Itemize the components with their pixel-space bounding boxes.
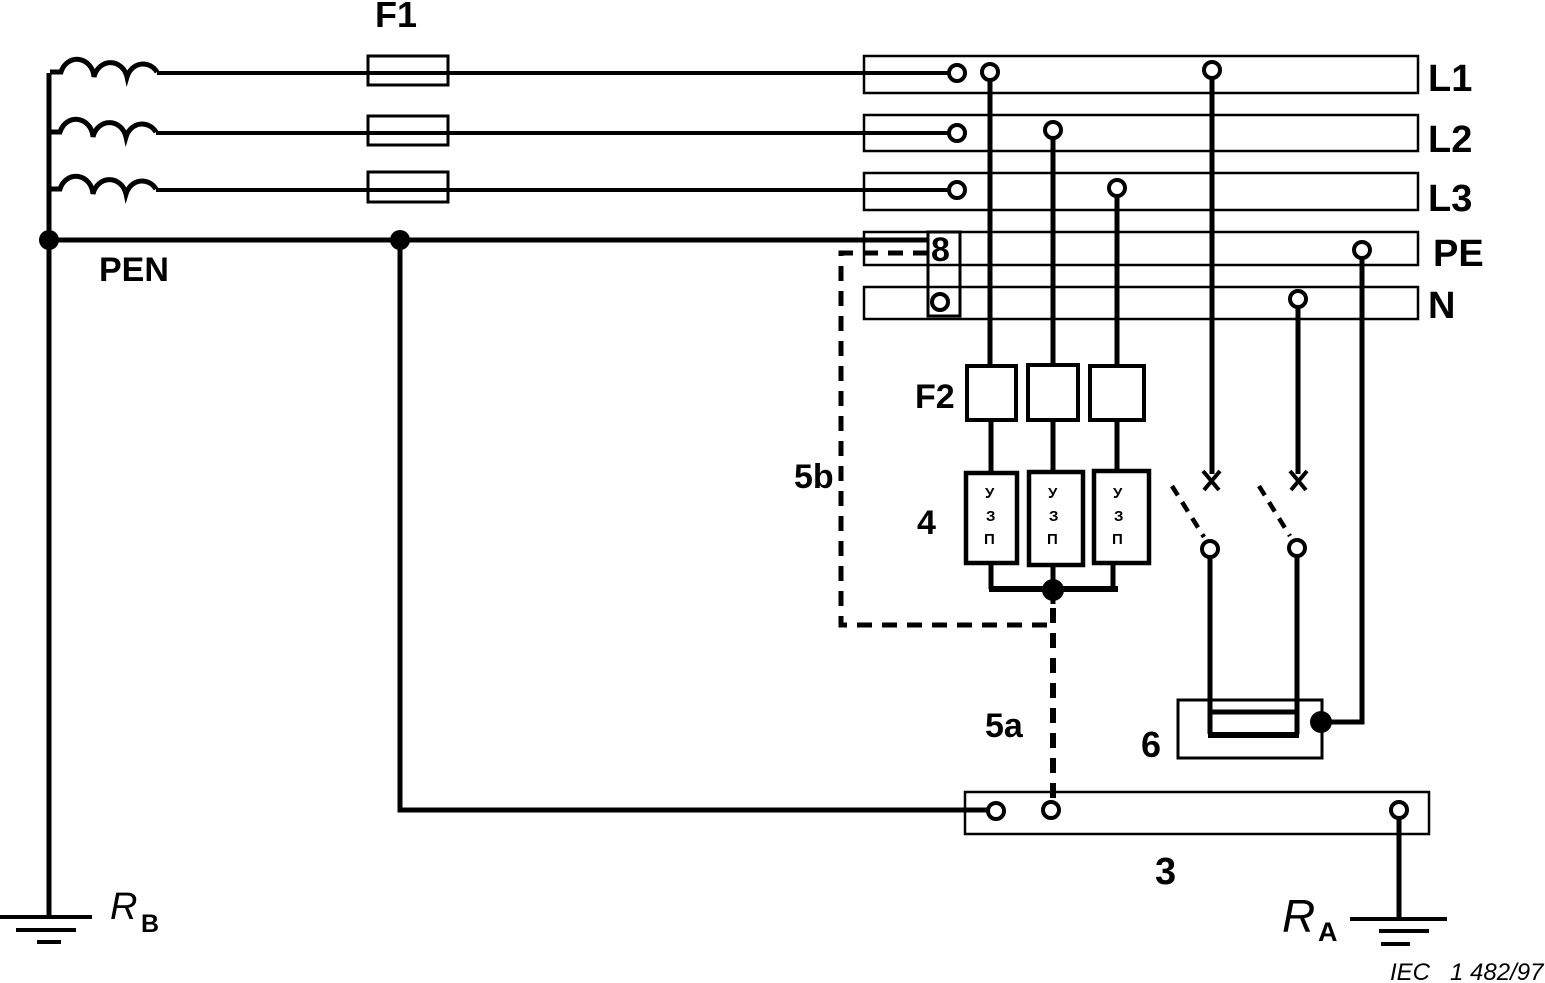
wire switch 2 to box 6 — [1295, 556, 1300, 734]
junction PEN at riser — [39, 230, 59, 250]
svg-text:A: A — [1318, 917, 1338, 947]
svg-text:L2: L2 — [1428, 119, 1472, 161]
fuse F1-3 — [368, 172, 448, 202]
wire L2 from winding through F1 to busbar — [156, 131, 949, 135]
svg-text:5a: 5a — [985, 707, 1024, 745]
wire SPD2 bottom — [1051, 565, 1056, 592]
switch 1 moving contact (dashed) — [1172, 486, 1204, 537]
svg-text:П: П — [1112, 531, 1123, 548]
fuse F2-3 — [1090, 366, 1144, 420]
winding L2 (source coil) — [50, 119, 156, 137]
svg-text:3: 3 — [1155, 851, 1176, 893]
terminal 3 left (circle) — [988, 803, 1004, 819]
terminal 8-N (circle) — [932, 294, 948, 310]
winding L1 (source coil) — [50, 59, 157, 77]
terminal L1 tap to switch (circle) — [1204, 62, 1220, 78]
switch 2 hinge (circle) — [1289, 540, 1305, 556]
switch 2 moving contact (dashed) — [1259, 486, 1290, 536]
ground RA — [1350, 919, 1447, 944]
SPD 3 (surge protective device) — [1094, 471, 1149, 563]
wire L3 from winding through F1 to busbar — [156, 188, 949, 192]
svg-text:З: З — [986, 508, 995, 525]
svg-text:F2: F2 — [915, 378, 955, 416]
svg-text:6: 6 — [1141, 724, 1161, 765]
svg-text:П: П — [984, 531, 995, 548]
wire tap L3 down to F2-3 — [1115, 196, 1120, 366]
terminal N tap (circle) — [1290, 291, 1306, 307]
wire PEN drop to earth bar 3 — [400, 240, 988, 810]
busbar N — [864, 287, 1418, 319]
fuse F2-2 — [1028, 365, 1078, 420]
svg-text:4: 4 — [917, 504, 936, 542]
fuse F1-1 — [368, 56, 448, 85]
svg-text:IEC 1 482/97: IEC 1 482/97 — [1390, 959, 1545, 983]
terminal block 8 (PEN split) — [928, 232, 960, 316]
wire: left vertical riser from source to earth RB — [47, 73, 52, 918]
terminal L2 in (circle) — [949, 125, 965, 141]
wire F2-2 to SPD 2 — [1051, 420, 1056, 473]
junction PE at box 6 — [1310, 711, 1332, 733]
switch 1 hinge (circle) — [1202, 541, 1218, 557]
busbar L3 — [864, 173, 1418, 210]
SPD 2 (surge protective device) — [1029, 472, 1083, 565]
svg-text:PE: PE — [1433, 233, 1484, 275]
wire earth bar to RA earth — [1397, 818, 1402, 919]
equipment box 6 — [1178, 700, 1322, 758]
svg-text:У: У — [1048, 485, 1058, 502]
winding L3 (source coil) — [50, 176, 156, 194]
svg-text:П: П — [1047, 531, 1058, 548]
wire F2-3 to SPD 3 — [1115, 420, 1120, 473]
wire 5b dashed earthing link — [841, 253, 1050, 625]
wire tap L1 down to switch 1 — [1210, 78, 1215, 474]
fuse F1-2 — [368, 116, 448, 145]
wire SPD common join bar — [989, 586, 1118, 592]
wire L1 from winding through F1 to busbar — [157, 71, 949, 75]
svg-text:У: У — [1113, 485, 1123, 502]
switch 1 fixed contact X — [1203, 471, 1220, 490]
busbar PE — [864, 232, 1418, 265]
svg-text:R: R — [1282, 890, 1315, 942]
svg-text:8: 8 — [931, 231, 950, 269]
terminal L3 in (circle) — [949, 182, 965, 198]
terminal L2 tap (circle) — [1045, 122, 1061, 138]
busbar L1 — [864, 56, 1418, 93]
earthing bar 3 — [965, 792, 1429, 834]
bar inside box 6 upper — [1212, 710, 1295, 715]
terminal 3 mid (circle) — [1043, 802, 1059, 818]
wire switch 1 to box 6 — [1208, 557, 1213, 734]
terminal L3 tap (circle) — [1109, 180, 1125, 196]
svg-text:PEN: PEN — [99, 251, 169, 289]
wire SPD1 bottom — [989, 563, 994, 589]
wire tap L1 down to F2-1 — [988, 80, 993, 366]
svg-text:F1: F1 — [375, 0, 417, 35]
wire PEN horizontal — [49, 238, 928, 243]
wire PE down to box 6 — [1324, 258, 1362, 722]
svg-text:5b: 5b — [794, 458, 834, 496]
wire F2-1 to SPD 1 — [989, 420, 994, 473]
terminal L1 in (circle) — [949, 65, 965, 81]
svg-text:L1: L1 — [1428, 58, 1472, 100]
terminal PE tap (circle) — [1354, 242, 1370, 258]
wire SPD3 bottom — [1111, 563, 1116, 589]
svg-text:N: N — [1428, 285, 1455, 327]
junction PEN at drop — [390, 230, 410, 250]
SPD 1 (surge protective device) — [966, 473, 1017, 563]
switch 2 fixed contact X — [1290, 471, 1307, 490]
terminal L1 tap to F2 (circle) — [982, 64, 998, 80]
svg-text:У: У — [985, 485, 995, 502]
wire tap N down to switch 2 — [1296, 307, 1301, 474]
ground RB — [0, 917, 92, 942]
wire stub below junction — [1051, 590, 1056, 604]
fuse F2-1 — [967, 366, 1016, 420]
svg-text:R: R — [110, 886, 137, 928]
wire tap L2 down to F2-2 — [1051, 138, 1056, 366]
wire 5a dashed down to earth bar — [1050, 608, 1056, 800]
terminal 3 right (circle) — [1391, 802, 1407, 818]
junction SPD common — [1042, 579, 1064, 601]
svg-text:B: B — [141, 910, 159, 938]
svg-text:L3: L3 — [1428, 178, 1472, 220]
svg-text:З: З — [1114, 508, 1123, 525]
bar inside box 6 lower — [1208, 732, 1299, 738]
busbar L2 — [864, 115, 1418, 151]
svg-text:З: З — [1049, 508, 1058, 525]
